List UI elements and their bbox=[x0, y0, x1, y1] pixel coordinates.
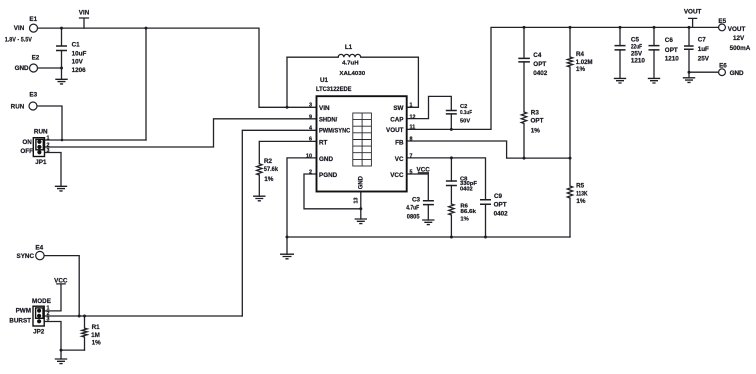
svg-text:10V: 10V bbox=[72, 59, 84, 66]
wire L1 net left bbox=[287, 56, 338, 58]
wire JP2 pin3 to ground bbox=[44, 322, 84, 360]
turret E2 bbox=[30, 64, 38, 72]
svg-text:1.8V - 5.5V: 1.8V - 5.5V bbox=[5, 37, 33, 44]
svg-text:SYNC: SYNC bbox=[17, 253, 35, 260]
wire C9 bottom bbox=[485, 204, 487, 237]
svg-text:VOUT: VOUT bbox=[684, 9, 702, 16]
capacitor C2 bbox=[446, 111, 457, 114]
wire R4 chain bbox=[569, 27, 571, 237]
junction R3-FB bbox=[523, 157, 526, 160]
capacitor C6 bbox=[649, 46, 660, 50]
ground at C6 bbox=[648, 78, 660, 83]
wire CAP pin to C2 bbox=[407, 96, 452, 118]
svg-text:12: 12 bbox=[410, 114, 416, 120]
resistor R3 bbox=[521, 112, 526, 124]
svg-text:VIN: VIN bbox=[14, 25, 25, 32]
svg-text:E6: E6 bbox=[719, 62, 727, 69]
svg-text:1: 1 bbox=[410, 102, 413, 108]
svg-text:PWM/SYNC: PWM/SYNC bbox=[319, 128, 351, 135]
wire VC bbox=[407, 158, 486, 200]
wire VOUT flag stub bbox=[689, 18, 697, 27]
svg-text:3: 3 bbox=[309, 102, 312, 108]
svg-text:E1: E1 bbox=[29, 16, 37, 23]
svg-text:XAL4030: XAL4030 bbox=[339, 71, 365, 77]
svg-text:1%: 1% bbox=[531, 128, 541, 135]
capacitor C3 bbox=[423, 201, 434, 205]
wire JP2 pin2 row bbox=[44, 315, 242, 317]
svg-text:7: 7 bbox=[410, 154, 413, 160]
capacitor C7 bbox=[684, 46, 694, 49]
resistor R4 bbox=[567, 57, 572, 67]
junction C7-E6 bbox=[688, 71, 691, 74]
jumper JP1 bbox=[33, 138, 44, 157]
svg-text:VC: VC bbox=[395, 156, 404, 163]
svg-text:11: 11 bbox=[410, 124, 416, 130]
capacitor C8 bbox=[446, 181, 457, 186]
wire GND rail bbox=[287, 236, 570, 238]
svg-text:8: 8 bbox=[410, 136, 413, 142]
svg-text:RUN: RUN bbox=[11, 103, 25, 110]
svg-text:JP2: JP2 bbox=[33, 328, 45, 335]
junction R4 rail bbox=[569, 26, 572, 29]
turret E6 bbox=[719, 69, 726, 76]
svg-text:0402: 0402 bbox=[494, 211, 509, 218]
wire VIN rail bbox=[38, 28, 317, 107]
junction C7 rail bbox=[688, 26, 691, 29]
svg-text:R4: R4 bbox=[576, 51, 585, 58]
wire pin13 stem bbox=[360, 166, 362, 219]
svg-text:VOUT: VOUT bbox=[728, 26, 746, 33]
svg-text:GND: GND bbox=[730, 70, 744, 77]
wire C4 R3 chain bbox=[523, 27, 525, 158]
wire PWM/SYNC vertical bbox=[242, 130, 316, 316]
junction JP1-VIN bbox=[145, 27, 148, 30]
jumper JP2 bbox=[33, 306, 44, 326]
svg-text:C3: C3 bbox=[412, 197, 421, 204]
ground at GND rail bbox=[280, 254, 294, 259]
svg-text:1M: 1M bbox=[91, 332, 100, 339]
svg-text:OPT: OPT bbox=[533, 61, 546, 68]
svg-text:1210: 1210 bbox=[665, 55, 680, 62]
wire PGND jog bbox=[304, 174, 361, 209]
svg-text:SHDN/: SHDN/ bbox=[319, 117, 338, 124]
svg-text:1206: 1206 bbox=[72, 67, 87, 74]
svg-text:1%: 1% bbox=[264, 176, 274, 183]
svg-text:4: 4 bbox=[309, 126, 312, 132]
wire JP1 pin1 row bbox=[45, 139, 147, 141]
svg-text:VIN: VIN bbox=[319, 105, 330, 112]
junction PGND-pin13 bbox=[359, 207, 362, 210]
svg-text:10uF: 10uF bbox=[72, 51, 87, 58]
junction C8-VC bbox=[450, 156, 453, 159]
svg-text:57.6k: 57.6k bbox=[264, 166, 279, 173]
wire FB network bbox=[407, 141, 570, 158]
svg-text:C5: C5 bbox=[631, 36, 640, 43]
resistor R1 bbox=[82, 328, 87, 337]
wire C2 bottom to VOUT bbox=[450, 114, 452, 129]
svg-text:E5: E5 bbox=[718, 18, 726, 25]
svg-text:5: 5 bbox=[410, 169, 413, 175]
op-amp U1 LTC3122EDE body bbox=[317, 96, 407, 203]
ground at C5 bbox=[614, 78, 626, 83]
wire VIN flag stub bbox=[80, 18, 89, 28]
svg-text:R1: R1 bbox=[92, 324, 101, 331]
svg-text:4.7uF: 4.7uF bbox=[406, 204, 419, 211]
svg-text:25V: 25V bbox=[698, 55, 710, 62]
svg-text:R2: R2 bbox=[264, 158, 273, 165]
wire C3 bottom to ground bbox=[427, 205, 429, 220]
svg-text:JP1: JP1 bbox=[35, 159, 47, 166]
ground at JP1 bbox=[55, 186, 67, 191]
turret E5 bbox=[719, 24, 726, 31]
svg-text:E3: E3 bbox=[29, 91, 37, 98]
junction R4-R5-FB bbox=[569, 157, 572, 160]
svg-text:L1: L1 bbox=[345, 44, 353, 51]
wire JP1 pin2 to SHDN bbox=[45, 119, 317, 147]
svg-text:R3: R3 bbox=[531, 109, 540, 116]
wire R2 bottom bbox=[258, 175, 260, 196]
turret E3 bbox=[29, 102, 37, 110]
svg-text:VOUT: VOUT bbox=[386, 127, 404, 134]
capacitor C5 bbox=[615, 46, 626, 50]
wire R1 top bbox=[84, 316, 86, 328]
wire JP1 pin1 to VIN rail bbox=[145, 28, 147, 140]
junction C2-VOUT bbox=[450, 128, 453, 131]
svg-text:OPT: OPT bbox=[665, 47, 678, 54]
svg-text:U1: U1 bbox=[320, 77, 329, 84]
svg-text:1%: 1% bbox=[576, 198, 586, 205]
wire R1 bottom bbox=[84, 337, 86, 350]
wire L1 net right bbox=[361, 57, 419, 107]
ground at R2 bbox=[253, 196, 265, 201]
resistor R5 bbox=[567, 186, 572, 198]
junction E2-C1 bbox=[60, 67, 63, 70]
resistor R6 bbox=[449, 204, 454, 215]
svg-text:PWM: PWM bbox=[16, 308, 31, 315]
capacitor C9 bbox=[480, 200, 491, 205]
svg-text:SW: SW bbox=[393, 105, 403, 112]
svg-text:9: 9 bbox=[309, 115, 312, 121]
svg-text:LTC3122EDE: LTC3122EDE bbox=[316, 86, 352, 93]
ground at JP2 bbox=[55, 359, 67, 364]
svg-text:VCC: VCC bbox=[417, 166, 431, 173]
svg-text:C4: C4 bbox=[533, 52, 542, 59]
wire C7 legs and E6 bbox=[689, 27, 719, 77]
junction E3 drop bbox=[61, 139, 64, 142]
junction R1-JP2 row bbox=[83, 315, 86, 318]
svg-text:1%: 1% bbox=[576, 66, 586, 73]
svg-text:4.7uH: 4.7uH bbox=[342, 60, 359, 66]
wire VCC to C3 bbox=[407, 174, 429, 201]
svg-text:1%: 1% bbox=[460, 217, 468, 223]
svg-text:MODE: MODE bbox=[32, 298, 51, 305]
svg-text:VIN: VIN bbox=[79, 10, 90, 17]
wire JP1 pin3 to ground bbox=[45, 153, 62, 187]
junction C5 rail bbox=[619, 26, 622, 29]
junction C1 top bbox=[60, 27, 63, 30]
svg-text:BURST: BURST bbox=[9, 318, 31, 325]
junction L1-VIN pin bbox=[286, 106, 289, 109]
svg-text:0402: 0402 bbox=[533, 70, 548, 77]
svg-text:86.6k: 86.6k bbox=[460, 209, 476, 215]
capacitor C1 bbox=[56, 46, 67, 51]
ground at C7 bbox=[683, 78, 695, 83]
wire E4 SYNC down bbox=[44, 256, 79, 316]
svg-text:E4: E4 bbox=[35, 245, 43, 252]
svg-text:OFF: OFF bbox=[20, 148, 33, 155]
inductor L1 bbox=[338, 54, 361, 57]
wire JP2 pin1 VCC bbox=[44, 284, 65, 311]
svg-text:CAP: CAP bbox=[390, 117, 403, 124]
svg-text:1uF: 1uF bbox=[698, 46, 709, 53]
turret E1 bbox=[30, 24, 38, 32]
ground at C1 bbox=[55, 79, 67, 84]
svg-text:R5: R5 bbox=[576, 183, 585, 190]
wire R6 bottom bbox=[450, 215, 452, 237]
wire VCC flag bar at IC bbox=[418, 172, 428, 174]
svg-text:GND: GND bbox=[319, 156, 333, 163]
wire E3 RUN to JP1 pin1 bbox=[38, 106, 63, 140]
svg-text:E2: E2 bbox=[32, 54, 40, 61]
wire C1 branch bbox=[61, 28, 63, 79]
wire E2 to C1 bbox=[38, 67, 62, 69]
svg-text:500mA: 500mA bbox=[730, 45, 751, 52]
wire C8 top leg bbox=[450, 158, 452, 181]
svg-text:12V: 12V bbox=[733, 35, 745, 42]
wire GND pin to rail bbox=[287, 158, 317, 254]
svg-text:GND: GND bbox=[358, 176, 365, 190]
svg-text:0402: 0402 bbox=[460, 187, 473, 193]
svg-text:6: 6 bbox=[309, 137, 312, 143]
svg-text:3: 3 bbox=[47, 148, 50, 154]
capacitor C4 bbox=[518, 58, 530, 62]
svg-text:FB: FB bbox=[395, 140, 404, 147]
wire C8 to R6 bbox=[450, 186, 452, 205]
junction C6 rail bbox=[653, 26, 656, 29]
svg-text:2: 2 bbox=[309, 169, 312, 175]
junction C9-GND rail bbox=[484, 236, 487, 239]
wire VOUT pin to output rail bbox=[407, 27, 719, 129]
junction R6-GND rail bbox=[450, 236, 453, 239]
svg-text:50V: 50V bbox=[460, 118, 470, 124]
svg-text:C9: C9 bbox=[494, 193, 503, 200]
svg-text:1%: 1% bbox=[92, 340, 102, 347]
wire RT to R2 bbox=[259, 141, 316, 163]
svg-text:VCC: VCC bbox=[54, 277, 68, 284]
wire C5 legs bbox=[619, 27, 621, 78]
wire L1 left leg to VIN pin bbox=[286, 57, 288, 107]
turret E4 bbox=[36, 251, 44, 259]
svg-text:3: 3 bbox=[47, 317, 50, 323]
svg-text:0.1uF: 0.1uF bbox=[460, 110, 472, 116]
junction JP2 pin3 gnd bbox=[60, 349, 63, 352]
svg-text:1: 1 bbox=[47, 135, 50, 141]
ground at C3 bbox=[422, 220, 434, 225]
svg-text:GND: GND bbox=[15, 65, 29, 72]
svg-text:RT: RT bbox=[319, 140, 328, 147]
wire C6 legs bbox=[653, 27, 655, 78]
svg-text:OPT: OPT bbox=[531, 117, 544, 124]
svg-text:ON: ON bbox=[22, 139, 32, 146]
svg-text:113K: 113K bbox=[576, 191, 588, 198]
svg-text:22uF: 22uF bbox=[631, 43, 642, 50]
svg-text:C1: C1 bbox=[72, 42, 81, 49]
svg-text:10: 10 bbox=[306, 153, 312, 159]
svg-text:13: 13 bbox=[354, 198, 360, 204]
svg-text:C6: C6 bbox=[665, 37, 674, 44]
junction GND rail left bbox=[286, 236, 289, 239]
svg-text:C7: C7 bbox=[698, 36, 707, 43]
svg-text:0805: 0805 bbox=[407, 214, 420, 221]
resistor R2 bbox=[257, 164, 262, 175]
svg-text:1210: 1210 bbox=[631, 57, 646, 64]
svg-text:VCC: VCC bbox=[390, 172, 404, 179]
svg-text:OPT: OPT bbox=[494, 202, 507, 209]
junction E4-JP2 row bbox=[78, 315, 81, 318]
junction C4 rail bbox=[523, 26, 526, 29]
svg-text:PGND: PGND bbox=[319, 172, 338, 179]
ground at pin13 bbox=[355, 219, 367, 224]
